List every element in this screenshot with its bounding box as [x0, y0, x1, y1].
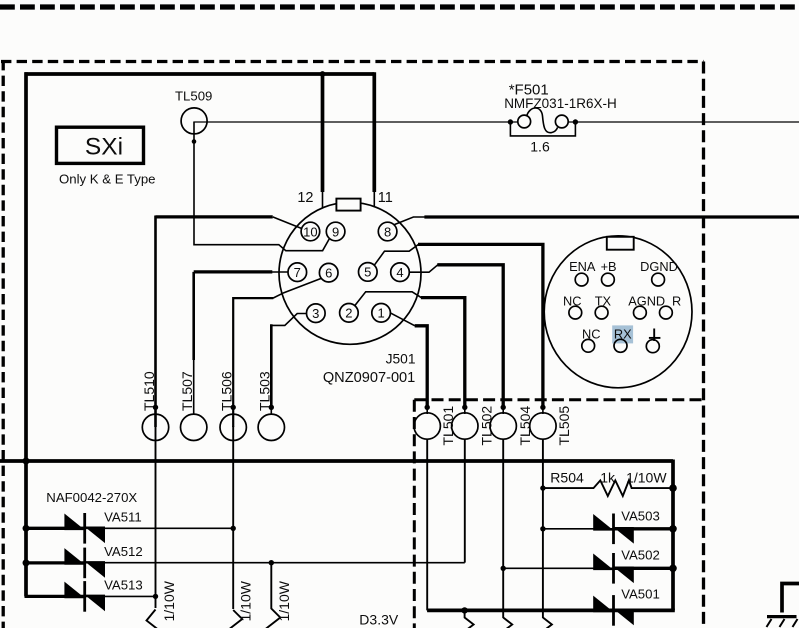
- wire: pin 1 to TL501 (thick): [390, 313, 415, 326]
- SXi variant box: [57, 127, 144, 163]
- pin 6: [319, 263, 338, 282]
- svg-text:QNZ0907-001: QNZ0907-001: [323, 370, 415, 386]
- svg-text:TL509: TL509: [175, 89, 212, 104]
- node L: [646, 329, 660, 353]
- svg-text:1/10W: 1/10W: [161, 580, 177, 621]
- node NC (row 2): [563, 293, 582, 319]
- top section divider (thick dashed rule): [0, 4, 799, 9]
- terminal TL505: [530, 405, 572, 446]
- varistor VA513: [25, 578, 159, 612]
- varistor VA511: [23, 510, 236, 544]
- optional-section dashed boundary box: [1, 60, 704, 628]
- svg-text:VA513: VA513: [104, 578, 143, 593]
- wire: pin 8 to right edge (thick): [394, 217, 425, 225]
- node NC (row 3): [582, 327, 601, 353]
- wire: pin 12 stub: [321, 74, 325, 192]
- pin 1: [372, 304, 391, 323]
- varistor VA503: [540, 509, 677, 545]
- svg-text:Only K & E Type: Only K & E Type: [59, 171, 156, 186]
- terminal TL501: [414, 405, 456, 446]
- ground (chassis): [767, 617, 798, 627]
- svg-text:1/10W: 1/10W: [238, 580, 254, 621]
- svg-text:NAF0042-270X: NAF0042-270X: [46, 490, 137, 505]
- terminal TL504: [490, 405, 533, 446]
- wire: pin 3 to TL503: [272, 314, 307, 326]
- wire: left vertical bus: [24, 72, 28, 596]
- wire: TL509 to fuse F501 (thin horizontal net): [194, 121, 518, 123]
- wire: pin 4 to TL504 (thick): [409, 265, 437, 272]
- svg-text:4: 4: [396, 265, 403, 280]
- svg-text:VA512: VA512: [104, 544, 143, 559]
- wire: right thick vertical bus: [671, 460, 675, 611]
- svg-text:3: 3: [312, 306, 319, 321]
- svg-text:TL501: TL501: [440, 406, 456, 446]
- svg-text:11: 11: [378, 190, 393, 206]
- wire: main thick horizontal bus: [0, 459, 673, 463]
- node R: [660, 293, 682, 319]
- svg-text:10: 10: [303, 224, 317, 239]
- pin 9: [326, 222, 345, 241]
- svg-text:9: 9: [332, 224, 339, 239]
- resistor below rail at TL502 column: [456, 610, 474, 628]
- svg-text:TL507: TL507: [179, 371, 195, 411]
- pin 5: [359, 263, 378, 282]
- wire: TL504 column down to bottom resistor: [502, 439, 504, 618]
- pin 4: [391, 263, 410, 282]
- wire: TL506 column down to bottom resistor: [232, 426, 234, 609]
- wire: bottom D3.3V rail: [427, 609, 675, 613]
- wire: pin 11 stub: [372, 72, 376, 192]
- resistor below TL506 (1/10W): [224, 580, 253, 628]
- svg-text:ENA: ENA: [569, 259, 596, 274]
- svg-text:TL504: TL504: [517, 406, 533, 446]
- terminal TL506: [219, 371, 247, 440]
- svg-text:1.6: 1.6: [530, 139, 550, 155]
- svg-text:DGND: DGND: [640, 259, 678, 274]
- svg-text:TL502: TL502: [478, 406, 494, 446]
- DIN connector J501 body: [279, 199, 421, 386]
- varistor VA502: [501, 548, 677, 584]
- wire: pin 2 to TL502 (thick): [355, 292, 422, 306]
- svg-text:VA511: VA511: [104, 510, 142, 525]
- svg-text:1: 1: [377, 306, 384, 321]
- terminal TL509: [175, 89, 212, 134]
- wire: fuse F501 to right edge: [568, 121, 799, 123]
- terminal TL502: [452, 405, 495, 446]
- node TX: [595, 293, 612, 319]
- svg-text:J501: J501: [386, 352, 416, 367]
- junction: pin12 stub on top rail: [320, 71, 326, 77]
- node ENA: [569, 259, 596, 286]
- wire: pin 6 to TL506: [273, 279, 321, 299]
- pin 3: [307, 304, 326, 323]
- svg-text:6: 6: [325, 266, 332, 281]
- node RX (highlighted): [612, 325, 633, 352]
- pin 7: [288, 263, 307, 282]
- svg-text:NMFZ031-1R6X-H: NMFZ031-1R6X-H: [504, 96, 617, 111]
- wire: pin 5 to TL505 (thick): [374, 244, 418, 265]
- terminal TL507: [179, 371, 207, 440]
- resistor below TL504 column: [494, 618, 512, 628]
- svg-text:R504: R504: [550, 470, 584, 486]
- svg-text:D3.3V: D3.3V: [359, 612, 399, 628]
- svg-text:5: 5: [364, 265, 371, 280]
- svg-text:VA503: VA503: [621, 509, 660, 524]
- svg-text:AGND: AGND: [628, 293, 665, 308]
- svg-text:VA502: VA502: [621, 548, 660, 563]
- wire: TL502 column down, corner into VA512 net: [464, 439, 466, 563]
- junction: bottom rail to resistor: [461, 607, 467, 613]
- svg-text:VA501: VA501: [621, 587, 660, 602]
- resistor below TL505 column: [534, 618, 552, 628]
- junction: left vertical on bus: [23, 458, 30, 465]
- lower-right dashed boundary box: [414, 400, 703, 628]
- svg-text:SXi: SXi: [85, 134, 123, 161]
- fuse F501: [504, 82, 617, 155]
- svg-text:8: 8: [384, 224, 391, 239]
- svg-text:7: 7: [294, 265, 301, 280]
- wire: bottom-right thick L to ground: [782, 584, 799, 613]
- wire: TL509 down to pin 9 net: [194, 122, 329, 251]
- terminal TL510: [141, 371, 169, 440]
- pin 10: [301, 222, 320, 241]
- resistor below TL503 (1/10W): [262, 563, 292, 628]
- svg-text:1/10W: 1/10W: [276, 580, 292, 621]
- wire: TL501 column down, corner into D3.3V rail: [426, 439, 428, 611]
- svg-text:TL505: TL505: [556, 406, 572, 446]
- wire: TL510 column down to VA513: [155, 426, 157, 608]
- resistor R504 1k: [540, 470, 677, 497]
- wire: pin 10 to TL510 (thick): [156, 215, 273, 218]
- wire: TL505 column down to bottom resistor: [542, 439, 544, 618]
- wire: pin 7 to TL507 (thick): [272, 271, 288, 273]
- svg-text:12: 12: [297, 190, 313, 206]
- node +B: [601, 259, 617, 286]
- node DGND: [640, 259, 678, 286]
- pin 2: [340, 304, 359, 323]
- junction below TL509: [192, 139, 197, 144]
- svg-text:R: R: [672, 293, 681, 308]
- pin-name legend connector body: [544, 236, 692, 388]
- resistor below TL510 (1/10W): [147, 580, 178, 628]
- svg-text:2: 2: [345, 306, 352, 321]
- pin 8: [378, 222, 397, 241]
- wire: thick bus top rail (+B feed): [25, 72, 375, 76]
- svg-text:1/10W: 1/10W: [626, 470, 667, 486]
- varistor VA512: [23, 544, 465, 578]
- varistor VA501: [427, 587, 660, 626]
- svg-text:+B: +B: [601, 259, 617, 274]
- terminal TL503: [257, 371, 285, 440]
- node AGND: [628, 293, 665, 319]
